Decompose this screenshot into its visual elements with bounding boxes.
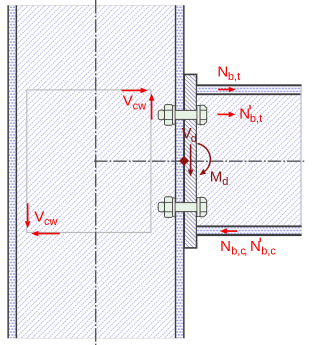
column right flange inner line	[175, 5, 176, 338]
beam top flange lower line	[197, 93, 302, 95]
N'bt arrow	[217, 112, 235, 118]
end plate	[184, 74, 196, 248]
Nbt arrow	[218, 87, 235, 93]
label N'bt	[239, 105, 262, 125]
svg-text:M: M	[210, 168, 223, 185]
label Vd	[182, 125, 197, 145]
svg-text:N: N	[217, 63, 228, 80]
label Vcw (top)	[123, 93, 146, 113]
column left flange inner line	[16, 5, 18, 338]
beam top flange (stippled)	[197, 86, 302, 93]
column top edge	[7, 5, 184, 7]
column centerline	[95, 0, 97, 345]
Vcw arrow down (bottom)	[25, 203, 31, 228]
beam bottom flange (stippled)	[197, 227, 302, 234]
svg-text:d: d	[191, 133, 197, 145]
svg-text:N: N	[239, 105, 250, 122]
Nbc arrow	[220, 228, 237, 234]
beam top flange upper line	[197, 84, 302, 86]
svg-text:b,t: b,t	[228, 71, 240, 83]
svg-text:cw: cw	[133, 100, 147, 112]
label Vcw (bottom)	[34, 208, 57, 228]
beam web (hatched)	[197, 95, 302, 225]
column left flange outer line	[7, 5, 8, 338]
label Nbc N'bc	[220, 238, 276, 258]
bolt B2 (lower)	[158, 197, 207, 218]
svg-text:cw: cw	[44, 216, 58, 228]
svg-text:N: N	[250, 238, 261, 255]
svg-text:,: ,	[244, 246, 247, 258]
svg-text:d: d	[222, 176, 228, 188]
label Md	[210, 168, 229, 188]
beam bottom flange lower line	[197, 234, 302, 236]
column web (hatched)	[17, 6, 175, 338]
beam bottom flange upper line	[197, 225, 302, 227]
svg-text:V: V	[123, 93, 133, 110]
beam centerline	[94, 160, 306, 162]
node diamond	[179, 156, 189, 166]
Vcw arrow up (top)	[149, 94, 155, 120]
column bottom edge	[7, 337, 184, 339]
svg-text:V: V	[34, 208, 44, 225]
Md moment arc	[198, 144, 211, 176]
column left flange (stippled)	[9, 6, 16, 338]
web panel zone outline	[27, 90, 151, 233]
svg-text:N: N	[220, 238, 231, 255]
Vcw arrow right (top)	[122, 88, 148, 94]
column right flange (stippled)	[176, 6, 183, 338]
Vcw arrow left (bottom)	[31, 231, 59, 237]
label Nbt	[217, 63, 240, 83]
column right flange outer line	[183, 5, 185, 338]
svg-text:b,t: b,t	[250, 113, 262, 125]
beam web end boundary	[300, 86, 302, 234]
bolt B1 (upper)	[158, 105, 207, 126]
Vd arrow down	[188, 144, 194, 176]
svg-text:b,c: b,c	[261, 246, 276, 258]
